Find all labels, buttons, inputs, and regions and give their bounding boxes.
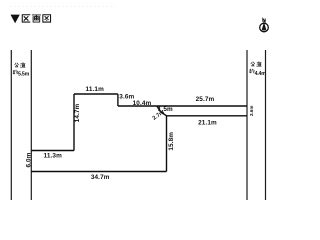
- left road west edge: [10, 50, 12, 200]
- right road label 約4.4m: [250, 69, 255, 73]
- left road label 約5.5m: [13, 70, 18, 74]
- title marker ▼: [11, 15, 20, 24]
- svg-text:34.7m: 34.7m: [91, 174, 110, 181]
- svg-text:25.7m: 25.7m: [196, 96, 215, 103]
- svg-text:10.4m: 10.4m: [133, 100, 152, 107]
- svg-text:15.8m: 15.8m: [168, 132, 175, 151]
- svg-text:5.5m: 5.5m: [18, 71, 30, 77]
- plot 11.3m edge: [31, 150, 74, 152]
- plot top edge 11.1m: [74, 93, 118, 95]
- 21.1m boundary line: [167, 115, 248, 117]
- plot bottom edge 34.7m: [31, 171, 166, 173]
- plot left edge 14.7m: [73, 94, 75, 151]
- plot right edge 15.8m: [166, 116, 168, 172]
- shallow diagonal 2.7m: [160, 112, 166, 116]
- svg-text:11.3m: 11.3m: [44, 153, 63, 160]
- plot step drop 3.6m: [117, 94, 119, 106]
- right road east edge: [265, 50, 267, 200]
- left road label 公道: [15, 63, 19, 67]
- boundary line along 10.4m and 25.7m: [118, 105, 247, 107]
- svg-text:2.6m: 2.6m: [249, 106, 254, 116]
- steep diagonal 1.5m: [157, 106, 160, 112]
- svg-text:11.1m: 11.1m: [86, 86, 105, 93]
- right road west edge: [246, 50, 248, 200]
- left road east edge: [30, 50, 32, 200]
- faint dotted separator top-left: [10, 6, 115, 8]
- svg-text:4.4m: 4.4m: [255, 71, 267, 77]
- svg-text:21.1m: 21.1m: [198, 119, 217, 126]
- page background: [0, 0, 280, 219]
- svg-text:14.7m: 14.7m: [74, 103, 81, 122]
- compass north symbol: [260, 19, 269, 32]
- svg-text:6.0m: 6.0m: [26, 152, 33, 167]
- right road label 公道: [251, 62, 255, 66]
- title kanji 区画図: [22, 15, 29, 22]
